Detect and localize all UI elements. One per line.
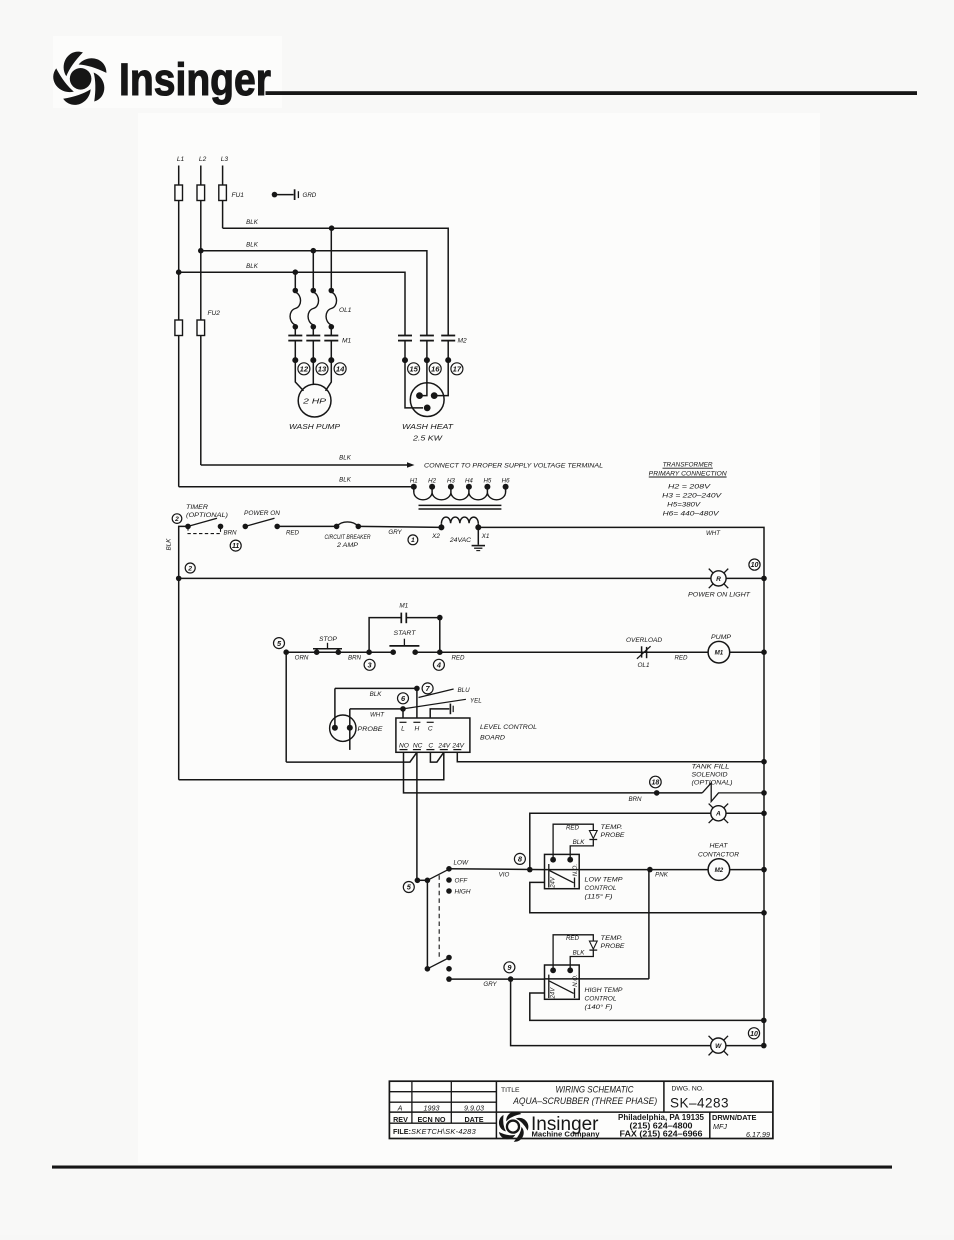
svg-text:PNK: PNK bbox=[655, 872, 669, 879]
svg-text:CONNECT TO PROPER SUPPLY VOLTA: CONNECT TO PROPER SUPPLY VOLTAGE TERMINA… bbox=[424, 462, 603, 469]
svg-text:13: 13 bbox=[318, 365, 327, 374]
svg-text:2: 2 bbox=[174, 516, 179, 523]
svg-text:BLK: BLK bbox=[246, 219, 259, 226]
svg-text:FU1: FU1 bbox=[232, 192, 245, 199]
wire GRY to X2 bbox=[358, 526, 441, 527]
svg-text:TITLE: TITLE bbox=[501, 1087, 520, 1094]
wires into board top L,H,C bbox=[402, 709, 404, 718]
contactor M2 contacts bbox=[398, 335, 412, 337]
title block frame bbox=[389, 1081, 773, 1138]
svg-text:START: START bbox=[394, 630, 417, 637]
fuse FU2 on L1 bbox=[175, 320, 183, 336]
terminal 2 (rail) bbox=[185, 563, 195, 573]
svg-text:2.5 KW: 2.5 KW bbox=[412, 434, 444, 443]
svg-text:CONTROL: CONTROL bbox=[585, 885, 617, 892]
terminal 3 bbox=[366, 649, 372, 655]
svg-text:N.O.: N.O. bbox=[573, 864, 579, 876]
terminal 1 bbox=[408, 535, 418, 545]
svg-text:15: 15 bbox=[409, 365, 418, 374]
selector switch lower deck bbox=[425, 966, 431, 972]
node 7 junction bbox=[414, 686, 420, 692]
svg-text:WIRING SCHEMATIC: WIRING SCHEMATIC bbox=[556, 1084, 635, 1094]
svg-text:CIRCUIT BREAKER: CIRCUIT BREAKER bbox=[325, 534, 371, 541]
wire rung to power on light bbox=[179, 577, 711, 579]
svg-text:16: 16 bbox=[431, 365, 440, 374]
terminal 17 bbox=[451, 363, 463, 375]
svg-text:LOW: LOW bbox=[454, 859, 470, 866]
ground at C terminal bbox=[449, 704, 451, 715]
svg-text:24V: 24V bbox=[551, 876, 557, 889]
svg-text:GRY: GRY bbox=[483, 981, 497, 988]
wire bbox=[277, 525, 336, 527]
svg-text:C: C bbox=[428, 742, 433, 749]
svg-text:18: 18 bbox=[652, 780, 660, 787]
terminal 6 bbox=[398, 693, 409, 704]
terminal 15 bbox=[408, 363, 420, 375]
terminal 2 bbox=[172, 514, 182, 524]
svg-text:Insinger: Insinger bbox=[119, 54, 271, 105]
svg-text:TANK FILL: TANK FILL bbox=[692, 764, 731, 771]
svg-text:BRN: BRN bbox=[348, 654, 362, 661]
svg-text:TIMER: TIMER bbox=[186, 504, 208, 511]
svg-text:OFF: OFF bbox=[455, 878, 469, 885]
svg-text:OL1: OL1 bbox=[637, 662, 650, 669]
node X1 bbox=[475, 524, 481, 530]
svg-text:L1: L1 bbox=[177, 156, 185, 163]
svg-text:HEAT: HEAT bbox=[710, 842, 729, 849]
svg-text:H2 = 208V: H2 = 208V bbox=[668, 483, 711, 490]
svg-text:12: 12 bbox=[300, 365, 309, 374]
svg-text:X2: X2 bbox=[431, 533, 440, 540]
svg-text:REV: REV bbox=[393, 1115, 408, 1124]
selector contacts LOW/OFF/HIGH bbox=[446, 866, 452, 872]
svg-text:ORN: ORN bbox=[295, 654, 309, 661]
svg-text:SOLENOID: SOLENOID bbox=[692, 772, 728, 779]
svg-text:H6= 440–480V: H6= 440–480V bbox=[663, 510, 720, 517]
wire BLK from temp probe bbox=[570, 840, 593, 860]
wire VIO rung bbox=[449, 868, 545, 871]
svg-text:X1: X1 bbox=[481, 533, 490, 540]
svg-text:H1: H1 bbox=[410, 477, 418, 484]
svg-text:Machine Company: Machine Company bbox=[532, 1130, 601, 1139]
svg-text:HIGH TEMP: HIGH TEMP bbox=[585, 987, 624, 994]
node 6 junction bbox=[400, 706, 406, 712]
svg-text:DATE: DATE bbox=[464, 1115, 483, 1124]
svg-text:POWER ON LIGHT: POWER ON LIGHT bbox=[688, 592, 751, 599]
lamp W heat on bbox=[723, 1051, 728, 1056]
svg-text:CONTROL: CONTROL bbox=[585, 996, 617, 1003]
svg-text:RED: RED bbox=[566, 935, 580, 942]
svg-text:A: A bbox=[397, 1104, 403, 1113]
svg-text:(OPTIONAL): (OPTIONAL) bbox=[186, 512, 228, 519]
svg-text:DWG. NO.: DWG. NO. bbox=[671, 1085, 704, 1092]
svg-text:M2: M2 bbox=[715, 867, 724, 874]
svg-text:2: 2 bbox=[187, 565, 192, 572]
svg-text:1: 1 bbox=[411, 537, 415, 544]
wire BLK from temp probe bbox=[570, 950, 593, 970]
probe bbox=[330, 715, 356, 741]
svg-text:H4: H4 bbox=[465, 477, 473, 484]
svg-text:RED: RED bbox=[674, 655, 688, 662]
wire BLK to supply-terminal note bbox=[201, 464, 411, 466]
wire WHT probe to board bbox=[350, 708, 403, 710]
svg-text:BLK: BLK bbox=[573, 839, 586, 846]
circuit breaker 2 amp bbox=[334, 524, 340, 530]
svg-text:24VAC: 24VAC bbox=[449, 537, 471, 544]
svg-text:WASH PUMP: WASH PUMP bbox=[289, 422, 340, 431]
svg-text:10: 10 bbox=[751, 562, 759, 569]
svg-text:C: C bbox=[428, 725, 433, 732]
wire high temp N.O. up to PNK bbox=[648, 870, 650, 979]
wire L2 vertical bbox=[200, 166, 202, 466]
svg-text:2 HP: 2 HP bbox=[302, 397, 326, 406]
svg-text:BLK: BLK bbox=[246, 263, 259, 270]
wire GRY rung bbox=[449, 978, 545, 980]
fuse FU1 on L3 bbox=[219, 185, 227, 201]
svg-text:H3 = 220–240V: H3 = 220–240V bbox=[662, 492, 722, 499]
svg-text:FU2: FU2 bbox=[208, 310, 221, 317]
terminal 7 bbox=[422, 683, 433, 694]
svg-text:GRY: GRY bbox=[388, 529, 402, 536]
svg-text:STOP: STOP bbox=[319, 636, 338, 643]
tank fill solenoid (optional) bbox=[702, 783, 764, 802]
terminal 10 bbox=[749, 559, 760, 570]
svg-text:WHT: WHT bbox=[370, 711, 385, 718]
svg-text:BRN: BRN bbox=[223, 530, 237, 537]
wire NC down to selector switch bbox=[416, 752, 418, 880]
lamp A tank fill bbox=[724, 818, 729, 823]
svg-text:L2: L2 bbox=[199, 156, 207, 163]
overload OL1 heater legs bbox=[294, 272, 296, 290]
svg-text:H6: H6 bbox=[502, 477, 510, 484]
node 18 bbox=[654, 790, 660, 796]
terminal 5 (switch) bbox=[403, 882, 414, 893]
header rule bbox=[266, 91, 918, 95]
svg-text:M1: M1 bbox=[399, 602, 408, 609]
svg-text:VIO: VIO bbox=[499, 871, 510, 878]
svg-text:R: R bbox=[716, 576, 721, 583]
svg-text:24V: 24V bbox=[551, 987, 557, 1000]
node X2 bbox=[438, 524, 444, 530]
selector switch common (upper) bbox=[415, 878, 421, 884]
ground at X1 bbox=[477, 527, 479, 544]
bottom rule bbox=[52, 1166, 892, 1169]
temp control box bbox=[545, 965, 580, 999]
svg-text:LOW TEMP: LOW TEMP bbox=[585, 877, 624, 884]
svg-text:RED: RED bbox=[566, 825, 580, 832]
terminal 5 bbox=[274, 638, 285, 649]
wire BLK from L2 (middle feeder) bbox=[201, 251, 427, 336]
wire BLK probe to board bbox=[335, 687, 417, 689]
terminal 12 bbox=[298, 363, 310, 375]
wash pump motor leads bbox=[295, 360, 303, 391]
temp control box bbox=[545, 854, 580, 888]
wire gang to lower deck bbox=[426, 880, 428, 969]
svg-text:PROBE: PROBE bbox=[601, 832, 626, 839]
svg-text:M1: M1 bbox=[715, 650, 724, 657]
wire L3 vertical bbox=[222, 166, 224, 229]
transformer secondary 24VAC bbox=[441, 517, 478, 523]
svg-text:BRN: BRN bbox=[628, 796, 642, 803]
svg-text:10: 10 bbox=[750, 1031, 758, 1038]
wire BLK from L3 (top feeder) bbox=[223, 228, 449, 335]
contactor M1 contacts bbox=[288, 335, 302, 337]
svg-text:FAX (215) 624–6966: FAX (215) 624–6966 bbox=[620, 1129, 704, 1138]
svg-text:(115° F): (115° F) bbox=[585, 893, 613, 901]
svg-text:NO: NO bbox=[399, 742, 409, 749]
svg-text:SKETCH\SK-4283: SKETCH\SK-4283 bbox=[411, 1127, 477, 1136]
svg-text:OL1: OL1 bbox=[339, 307, 352, 314]
jumper C to 24V bbox=[430, 752, 443, 762]
svg-text:PROBE: PROBE bbox=[358, 726, 384, 733]
wash heater leads bbox=[405, 360, 423, 408]
terminal 10 (bottom) bbox=[748, 1028, 759, 1039]
wire BLK from L1 (bottom feeder) bbox=[179, 272, 405, 335]
wire to lamp A bbox=[530, 813, 711, 869]
wire pump rung bbox=[283, 649, 289, 655]
title block logo swirl bbox=[495, 1108, 530, 1142]
svg-text:4: 4 bbox=[436, 660, 441, 669]
fuse FU1 on L1 bbox=[175, 185, 183, 201]
svg-text:H5=380V: H5=380V bbox=[667, 501, 701, 508]
svg-text:BLK: BLK bbox=[573, 950, 586, 957]
terminal 4 bbox=[437, 649, 443, 655]
wire WHT from X1 to right rail bbox=[478, 527, 764, 1045]
svg-text:GRD: GRD bbox=[303, 192, 317, 199]
terminal 11 bbox=[230, 540, 241, 551]
wire YEL lead bbox=[403, 699, 466, 709]
svg-text:(OPTIONAL): (OPTIONAL) bbox=[692, 780, 733, 787]
wire high temp 24V return bbox=[530, 993, 764, 1020]
terminal 13 bbox=[316, 363, 328, 375]
svg-text:BLK: BLK bbox=[339, 455, 352, 462]
fuse FU2 on L2 bbox=[197, 320, 205, 336]
wire BLU lead bbox=[419, 689, 454, 698]
wire RED to temp probe bbox=[553, 824, 593, 860]
svg-text:2 AMP: 2 AMP bbox=[336, 542, 359, 549]
fuse FU1 on L2 bbox=[197, 185, 205, 201]
svg-text:H5: H5 bbox=[483, 477, 491, 484]
svg-text:RED: RED bbox=[286, 530, 300, 537]
svg-text:NC: NC bbox=[413, 742, 423, 749]
svg-text:H3: H3 bbox=[447, 477, 455, 484]
svg-text:MFJ: MFJ bbox=[713, 1122, 727, 1131]
terminal 18 bbox=[650, 776, 662, 788]
svg-text:FILE:: FILE: bbox=[393, 1127, 411, 1136]
svg-text:1993: 1993 bbox=[424, 1104, 440, 1113]
transformer core bbox=[419, 504, 502, 506]
wire low temp 24V return bbox=[530, 882, 764, 912]
wire BLK from L1 to H1 bbox=[179, 486, 414, 488]
wire stop-circuit to NC bbox=[285, 652, 287, 762]
svg-text:BLK: BLK bbox=[339, 476, 352, 483]
wire RED to temp probe bbox=[553, 935, 593, 971]
svg-text:BLU: BLU bbox=[458, 687, 471, 694]
diode temp probe bbox=[589, 941, 597, 949]
svg-text:TEMP.: TEMP. bbox=[601, 935, 623, 942]
svg-text:6.17.99: 6.17.99 bbox=[746, 1130, 770, 1139]
terminal 9 bbox=[504, 962, 515, 973]
terminal 14 bbox=[334, 363, 346, 375]
motor 2HP wash pump bbox=[298, 384, 331, 417]
svg-text:BOARD: BOARD bbox=[480, 735, 505, 742]
svg-text:BLK: BLK bbox=[370, 691, 383, 698]
svg-text:24V: 24V bbox=[437, 742, 450, 749]
svg-text:BLK: BLK bbox=[246, 242, 259, 249]
svg-text:A: A bbox=[715, 811, 721, 818]
svg-text:TEMP.: TEMP. bbox=[601, 824, 623, 831]
svg-text:LEVEL CONTROL: LEVEL CONTROL bbox=[480, 724, 537, 731]
svg-text:OVERLOAD: OVERLOAD bbox=[626, 637, 662, 644]
svg-text:M2: M2 bbox=[458, 338, 467, 345]
svg-text:ECN NO: ECN NO bbox=[418, 1115, 446, 1124]
svg-text:WASH HEAT: WASH HEAT bbox=[402, 422, 454, 431]
svg-text:L3: L3 bbox=[221, 156, 229, 163]
svg-text:H2: H2 bbox=[428, 477, 436, 484]
diode temp probe bbox=[589, 831, 597, 839]
node 9 bbox=[508, 976, 514, 982]
wire to lamp W bbox=[511, 979, 711, 1046]
svg-text:9.9.03: 9.9.03 bbox=[464, 1104, 484, 1113]
svg-text:PROBE: PROBE bbox=[601, 943, 626, 950]
Insinger logo swirl (header) bbox=[48, 49, 109, 111]
svg-text:24V: 24V bbox=[451, 742, 464, 749]
svg-text:AQUA–SCRUBBER (THREE PHASE): AQUA–SCRUBBER (THREE PHASE) bbox=[512, 1096, 657, 1106]
svg-text:WHT: WHT bbox=[706, 530, 721, 537]
svg-text:L: L bbox=[401, 725, 405, 732]
wire NO to tank fill solenoid bbox=[404, 752, 703, 793]
svg-text:RED: RED bbox=[451, 654, 465, 661]
svg-text:H: H bbox=[415, 725, 420, 732]
svg-text:PUMP: PUMP bbox=[711, 634, 732, 641]
node PNK bbox=[647, 867, 653, 873]
heater wash heat 2.5KW bbox=[410, 383, 444, 417]
svg-text:(140° F): (140° F) bbox=[585, 1003, 613, 1011]
svg-text:TRANSFORMER: TRANSFORMER bbox=[663, 462, 713, 469]
lamp R power on light bbox=[724, 584, 729, 589]
terminal 8 bbox=[514, 853, 525, 864]
svg-text:14: 14 bbox=[336, 365, 345, 374]
svg-text:CONTACTOR: CONTACTOR bbox=[698, 852, 739, 859]
level control board bbox=[396, 718, 470, 752]
svg-text:W: W bbox=[715, 1043, 722, 1050]
wire 24V to left rail bbox=[179, 752, 444, 780]
wire L1 vertical bbox=[178, 166, 180, 487]
M1 latch contact bbox=[369, 618, 400, 653]
terminal 16 bbox=[429, 363, 441, 375]
svg-text:HIGH: HIGH bbox=[455, 889, 471, 896]
svg-text:11: 11 bbox=[232, 543, 239, 550]
svg-text:PRIMARY CONNECTION: PRIMARY CONNECTION bbox=[649, 470, 727, 477]
ground GRD bbox=[272, 192, 278, 198]
svg-text:POWER ON: POWER ON bbox=[244, 510, 280, 517]
svg-text:BLK: BLK bbox=[165, 538, 172, 551]
svg-text:N.O.: N.O. bbox=[573, 974, 579, 986]
svg-text:M1: M1 bbox=[342, 338, 351, 345]
svg-text:YEL: YEL bbox=[470, 697, 482, 704]
svg-text:SK–4283: SK–4283 bbox=[670, 1095, 729, 1110]
svg-text:17: 17 bbox=[453, 365, 462, 374]
wire 24V to right rail bbox=[457, 752, 764, 761]
